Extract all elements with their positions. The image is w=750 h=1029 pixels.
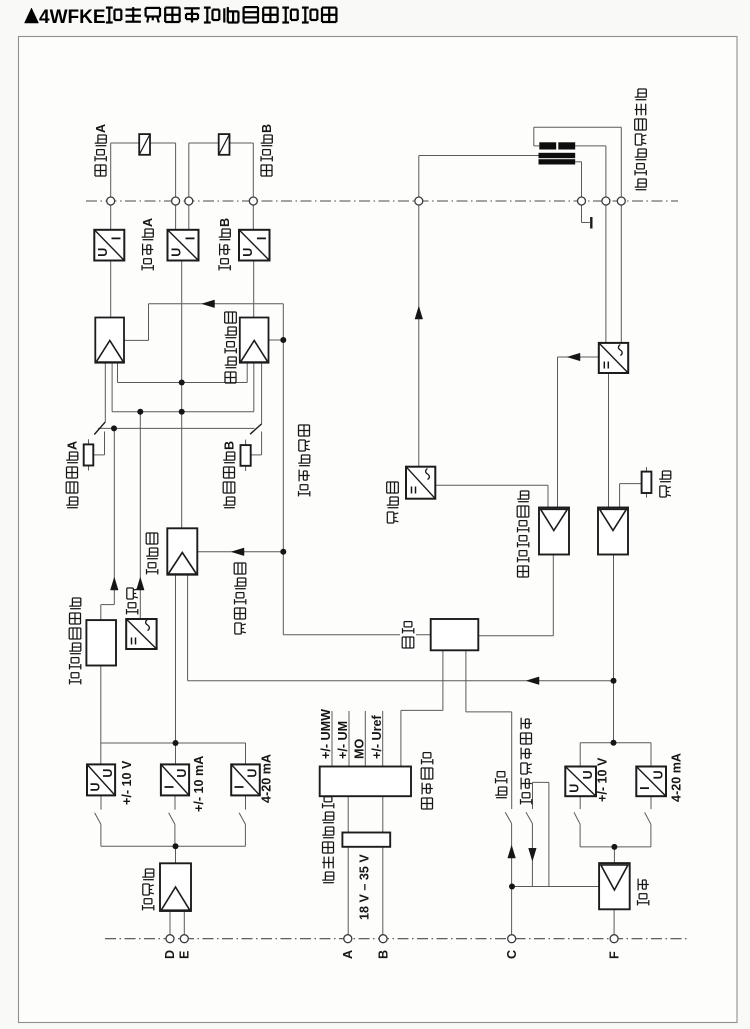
svg-text:I: I — [233, 785, 247, 788]
svg-text:F: F — [607, 951, 621, 959]
svg-text:U: U — [96, 248, 110, 257]
svg-text:B: B — [260, 124, 274, 133]
svg-text:A: A — [94, 124, 108, 133]
svg-text:+/- Uref: +/- Uref — [370, 714, 384, 759]
svg-text:I: I — [638, 786, 652, 789]
svg-text:+/- 10 V: +/- 10 V — [120, 760, 134, 805]
svg-text:D: D — [163, 950, 177, 959]
svg-text:U: U — [101, 769, 115, 778]
svg-text:4-20 mA: 4-20 mA — [670, 753, 684, 802]
svg-text:+/- 10 V: +/- 10 V — [596, 757, 610, 802]
svg-text:C: C — [505, 950, 519, 959]
svg-text:B: B — [223, 441, 237, 450]
svg-text:U: U — [241, 248, 255, 257]
svg-text:U: U — [567, 784, 581, 793]
svg-text:A: A — [66, 441, 80, 450]
svg-text:I: I — [255, 237, 269, 240]
svg-text:U: U — [175, 769, 189, 778]
svg-text:U: U — [246, 769, 260, 778]
svg-text:U: U — [581, 770, 595, 779]
svg-text:A: A — [141, 218, 155, 227]
svg-text:+/- 10 mA: +/- 10 mA — [192, 756, 206, 812]
svg-text:MO: MO — [353, 739, 367, 759]
svg-text:E: E — [178, 951, 192, 959]
svg-text:U: U — [170, 248, 184, 257]
svg-text:A: A — [341, 950, 355, 959]
svg-text:4WFKE: 4WFKE — [39, 7, 106, 28]
svg-text:I: I — [162, 785, 176, 788]
svg-text:I: I — [110, 237, 124, 240]
svg-text:U: U — [652, 770, 666, 779]
svg-text:B: B — [376, 950, 390, 959]
svg-text:4-20 mA: 4-20 mA — [260, 754, 274, 803]
svg-text:18 V – 35 V: 18 V – 35 V — [358, 854, 372, 920]
svg-text:+/- UMW: +/- UMW — [319, 709, 333, 759]
svg-text:+/- UM: +/- UM — [336, 721, 350, 759]
svg-text:B: B — [218, 218, 232, 227]
svg-text:U: U — [88, 782, 102, 791]
svg-text:I: I — [184, 237, 198, 240]
